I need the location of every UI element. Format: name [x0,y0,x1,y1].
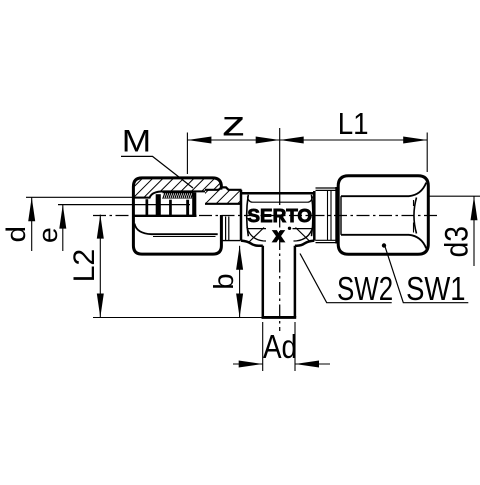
thread engagement fine hatch strokes [163,192,195,198]
svg-text:SERTO: SERTO [247,206,312,227]
body bottom corner chamfer arc right [294,227,313,241]
svg-text:SW1: SW1 [406,271,465,308]
body bottom corner chamfer arc left [247,227,266,241]
body bottom edge with fillet to tube, left side [241,241,263,246]
right neck bottom edge line 1 [316,239,338,241]
svg-text:L2: L2 [68,249,101,283]
L2 arrowhead bottom [97,294,104,318]
left nut hex flat edge line with corner blend [135,224,218,235]
body bottom edge with fillet to tube, right side [295,241,314,246]
ferrule ring section bar 2 [156,194,161,216]
centerline vertical axis of branch tube [279,192,281,331]
body washer face left [240,190,243,241]
ferrule ring section bar 4 [186,200,189,216]
right nut hex flat bottom edge line [341,234,409,236]
b arrowhead top [236,246,243,270]
right neck thread vertical line 2 [330,190,332,240]
section boundary thick line at axis [134,215,197,217]
body hex top edge [242,192,316,195]
right union nut outline [338,176,428,255]
SW1 leader line with underline [385,247,468,303]
left nut hex flat second edge line [153,236,216,238]
body bottom corner diagonal left [249,228,264,243]
Ad extension line right [294,322,296,371]
body bottom corner diagonal right [296,228,311,243]
svg-text:M: M [122,124,151,159]
right neck bottom edge line 2 [316,242,338,244]
body hex chamfer arc left [247,195,249,236]
right nut washer contact face [335,187,337,244]
ferrule ring section bar 3 [169,200,172,216]
b dimension line [239,246,241,318]
d3 dimension line [473,196,475,266]
dot after x marking [288,227,291,230]
neck thread relief vertical line 1 (left, below axis) [225,217,227,241]
right neck thread vertical line 1 [327,190,329,240]
svg-text:d3: d3 [439,226,475,257]
right neck top edge line 1 [316,187,338,189]
neck thread relief vertical line 2 (left, below axis) [228,217,230,241]
L1 arrowhead right [403,137,427,144]
branch tube end face [262,316,297,319]
z extension line [186,133,188,175]
z arrowhead right [256,137,280,144]
branch tube walls [263,246,295,318]
body hex top chamfer line [247,196,312,202]
body male-thread stub sectioned band inside nut [205,187,242,204]
right nut end chamfer blend arc top [409,183,426,197]
svg-text:Ad: Ad [263,329,297,366]
e dimension line [62,205,64,251]
svg-text:x: x [273,224,284,246]
svg-text:b: b [209,273,240,289]
d3 arrowhead [471,196,478,220]
SW2 leader line with underline [300,254,392,303]
Ad arrowhead right [295,361,319,368]
z and L1 dimension line [187,139,427,141]
z arrowhead left [187,137,211,144]
SW1 leader dot [382,243,386,247]
right nut front face edge [340,196,342,235]
svg-text:e: e [33,227,63,243]
b arrowhead bottom [236,294,243,318]
left neck bottom edge line [222,240,241,242]
left union nut outline [133,178,221,254]
M leader line with underline [121,156,193,188]
tube outer-diameter reference line (d) [26,196,146,198]
body hex chamfer arc right [312,195,313,236]
e arrowhead [59,205,66,229]
thread zone top edge line [163,191,194,193]
ferrule ring section bar 1 [146,199,149,216]
tube end reference line (L2/b base) [93,317,263,319]
left union nut sectioned wall with hatching [134,178,222,198]
right neck top edge line 2 [316,189,338,191]
body hex bottom chamfer line segments [247,228,313,230]
tube inner-diameter reference line (e) [58,204,190,206]
L1 arrowhead left [280,137,304,144]
svg-text:z: z [222,103,246,143]
extension line of z/L1 at tee center (solid, above body) [279,128,281,192]
ferrule ring section bar 5 [192,193,196,216]
d dimension line [31,197,33,251]
L1 extension line [426,133,428,173]
right nut end chamfer projection arc [414,198,417,234]
centerline horizontal axis, left segment [93,215,134,217]
Ad extension line left [262,322,264,371]
Ad dimension line tails [233,363,330,365]
d arrowhead [28,197,35,221]
centerline horizontal axis, right segment [199,215,437,217]
body washer face right [313,191,316,241]
svg-text:d: d [1,226,31,243]
L2 dimension line [99,215,101,318]
L2 arrowhead top [97,215,104,239]
svg-text:L1: L1 [338,108,369,142]
d3 reference line [429,195,480,197]
right nut hex flat top edge line [341,195,409,197]
vertical center dashes of end chamfer [413,200,415,233]
right nut end chamfer blend arc bottom [409,235,426,249]
Ad arrowhead left [239,361,263,368]
